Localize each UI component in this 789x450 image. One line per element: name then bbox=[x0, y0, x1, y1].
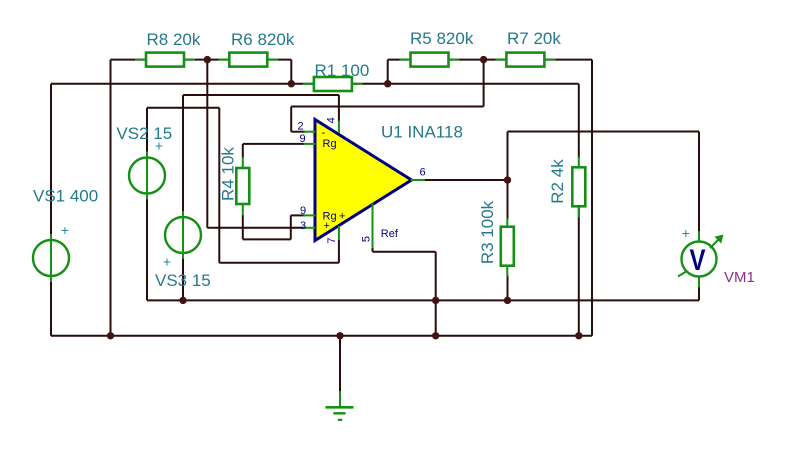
wire rail A bbox=[147, 299, 699, 301]
wire bbox=[291, 106, 483, 108]
resistor R6 bbox=[218, 53, 278, 67]
junction node ref railA bbox=[432, 297, 439, 304]
wire bbox=[183, 94, 339, 96]
resistor R3 bbox=[501, 218, 514, 277]
junction node R6-R1 bbox=[288, 80, 295, 87]
svg-text:Rg: Rg bbox=[323, 138, 337, 150]
wire R4 top lead bbox=[242, 144, 244, 158]
pin 3 stub bbox=[304, 227, 316, 229]
svg-text:VS1 400: VS1 400 bbox=[33, 187, 98, 206]
svg-text:4: 4 bbox=[326, 117, 338, 123]
junction node output bbox=[504, 176, 511, 183]
junction node R8-R6 bbox=[204, 56, 211, 63]
wire VS2 top bbox=[146, 108, 148, 154]
wire pin2 feed down bbox=[290, 107, 292, 132]
pin 5 stub bbox=[372, 204, 374, 249]
wire VS2 to pin7 bbox=[218, 108, 220, 263]
svg-text:-: - bbox=[322, 127, 326, 139]
resistor R8 bbox=[135, 53, 195, 67]
svg-text:+: + bbox=[163, 254, 171, 270]
junction node R5-R7 bbox=[480, 56, 487, 63]
wire R3 bottom lead bbox=[507, 275, 509, 300]
wire R7 right down bbox=[591, 60, 593, 336]
wire R2 top feed bbox=[578, 84, 580, 158]
pin 9 top stub bbox=[304, 143, 316, 145]
pin 7 stub bbox=[338, 226, 340, 240]
svg-text:7: 7 bbox=[326, 237, 338, 243]
svg-text:+: + bbox=[155, 138, 163, 154]
wire ground stem bbox=[339, 336, 341, 393]
wire R6 right down bbox=[290, 60, 292, 84]
svg-text:3: 3 bbox=[300, 220, 306, 232]
svg-text:U1 INA118: U1 INA118 bbox=[381, 123, 463, 142]
wire pin4 down bbox=[338, 95, 340, 122]
pin 2 stub bbox=[304, 131, 316, 133]
junction node ref railB bbox=[432, 332, 439, 339]
svg-text:R5 820k: R5 820k bbox=[410, 29, 474, 48]
wire VM1 top bbox=[698, 132, 700, 234]
wire R5R7 junction down bbox=[483, 60, 485, 107]
junction node R1-R5 bbox=[384, 80, 391, 87]
svg-text:5: 5 bbox=[361, 236, 373, 242]
wire R5 left up bbox=[387, 60, 389, 84]
wire rail B ground bbox=[51, 335, 592, 337]
svg-text:R8 20k: R8 20k bbox=[147, 30, 201, 49]
wire bbox=[508, 131, 700, 133]
voltage source VS2 bbox=[129, 152, 165, 200]
svg-text:9: 9 bbox=[300, 205, 306, 217]
wire R2 bottom lead bbox=[578, 205, 580, 336]
svg-text:2: 2 bbox=[298, 120, 304, 132]
wire bbox=[243, 238, 291, 240]
svg-text:R3 100k: R3 100k bbox=[478, 200, 497, 264]
resistor R1 bbox=[303, 77, 363, 91]
wire pin9 top bbox=[243, 143, 305, 145]
svg-text:VS3 15: VS3 15 bbox=[155, 271, 211, 290]
wire pin2 bbox=[291, 131, 305, 133]
svg-text:+: + bbox=[682, 225, 690, 241]
resistor R4 bbox=[236, 157, 249, 216]
svg-text:R2 4k: R2 4k bbox=[548, 159, 567, 204]
pin 4 stub bbox=[338, 121, 340, 134]
svg-text:+: + bbox=[339, 211, 345, 223]
wire VM1 bottom bbox=[698, 285, 700, 300]
junction node R2 railB bbox=[575, 332, 582, 339]
svg-text:Ref: Ref bbox=[381, 228, 399, 240]
svg-text:6: 6 bbox=[420, 167, 426, 179]
resistor R5 bbox=[400, 53, 460, 67]
wire pin6 output bbox=[424, 179, 508, 181]
wire bbox=[290, 215, 292, 239]
wire R4 bottom lead bbox=[242, 215, 244, 239]
wire VS2 bottom bbox=[146, 198, 148, 301]
wire bbox=[111, 59, 292, 61]
junction node railB left bbox=[107, 332, 114, 339]
pin 9 bottom stub bbox=[304, 214, 316, 216]
resistor R7 bbox=[495, 53, 555, 67]
svg-text:V: V bbox=[690, 244, 706, 277]
svg-text:VS2 15: VS2 15 bbox=[116, 124, 172, 143]
junction node ground railB bbox=[336, 332, 343, 339]
op-amp U1 INA118 bbox=[315, 120, 412, 241]
svg-text:R7 20k: R7 20k bbox=[507, 29, 561, 48]
wire VS1 bottom bbox=[50, 280, 52, 336]
wire bbox=[51, 83, 579, 85]
wire ref down bbox=[435, 252, 437, 336]
wire pin5 down bbox=[372, 247, 374, 252]
wire bbox=[147, 107, 219, 109]
wire pin7 bbox=[219, 262, 339, 264]
junction node VS3 rail bbox=[179, 297, 186, 304]
svg-text:9: 9 bbox=[300, 133, 306, 145]
svg-text:R1 100: R1 100 bbox=[315, 61, 370, 80]
svg-text:R6 820k: R6 820k bbox=[231, 30, 295, 49]
svg-text:VM1: VM1 bbox=[724, 269, 755, 286]
wire pin9 bottom bbox=[291, 214, 305, 216]
voltage source VS3 bbox=[165, 211, 201, 259]
resistor R2 bbox=[572, 157, 585, 218]
wire pin3 bbox=[207, 227, 305, 229]
wire VS3 bottom bbox=[182, 257, 184, 300]
junction node R3 railA bbox=[504, 297, 511, 304]
voltage source VS1 bbox=[33, 234, 69, 282]
ground bbox=[326, 391, 354, 420]
svg-text:R4 10k: R4 10k bbox=[219, 147, 238, 201]
wire R3 branch bbox=[507, 132, 509, 221]
wire VS1 top bbox=[50, 84, 52, 236]
wire bbox=[388, 59, 592, 61]
svg-text:+: + bbox=[61, 222, 69, 238]
wire node junction R8R6 down bbox=[206, 60, 208, 228]
wire pin7 down bbox=[338, 240, 340, 263]
wire pin5 bbox=[373, 251, 436, 253]
wire VS3 top bbox=[182, 95, 184, 213]
svg-text:+: + bbox=[324, 220, 330, 232]
pin 6 stub bbox=[411, 179, 426, 181]
voltmeter VM1 bbox=[678, 231, 724, 288]
wire bbox=[110, 60, 112, 336]
